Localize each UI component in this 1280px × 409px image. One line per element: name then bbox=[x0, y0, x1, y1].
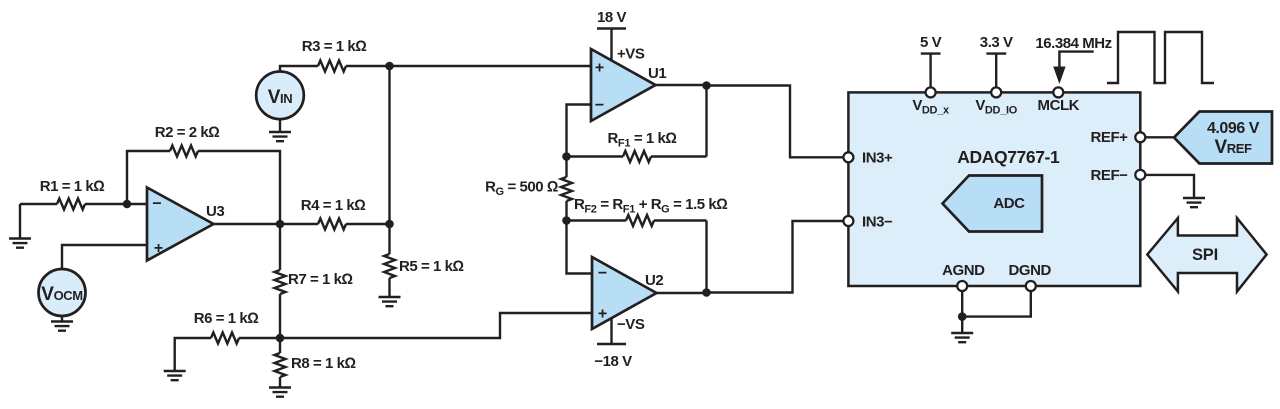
svg-text:IN3+: IN3+ bbox=[862, 150, 893, 167]
resistor R3 = 1 k&#937; bbox=[280, 38, 390, 72]
svg-text:4.096 V: 4.096 V bbox=[1207, 120, 1260, 137]
pin REF+ bbox=[1091, 129, 1146, 146]
SPI bidirectional bus arrow bbox=[1147, 218, 1266, 292]
resistor RF2 = RF1 + RG = 1.5 k&#937; (U2 feedback) bbox=[567, 196, 728, 293]
pin IN3+ bbox=[843, 150, 893, 167]
svg-text:+: + bbox=[595, 60, 604, 77]
resistor RF1 = 1 k&#937; (U1 feedback) bbox=[567, 86, 707, 163]
svg-text:REF−: REF− bbox=[1091, 167, 1129, 184]
wire U3 output bbox=[214, 223, 281, 225]
svg-text:RG = 500 Ω: RG = 500 Ω bbox=[485, 179, 558, 199]
clock waveform bbox=[1107, 32, 1214, 83]
IC U4 ADAQ7767-1 block bbox=[848, 92, 1140, 286]
svg-text:3.3 V: 3.3 V bbox=[980, 34, 1013, 51]
resistor R2 = 2 k&#937; (feedback around U3) bbox=[127, 124, 280, 224]
pin MCLK bbox=[1038, 87, 1080, 114]
svg-text:R1 = 1 kΩ: R1 = 1 kΩ bbox=[40, 178, 105, 195]
pin IN3&#8722; bbox=[843, 214, 893, 231]
wire REF&#8722; to ground bbox=[1145, 175, 1194, 197]
svg-text:+VS: +VS bbox=[617, 46, 645, 63]
source V_OCM bbox=[39, 245, 148, 316]
svg-text:MCLK: MCLK bbox=[1038, 97, 1080, 114]
wire U1 output bbox=[656, 84, 707, 86]
svg-text:R6 = 1 kΩ: R6 = 1 kΩ bbox=[194, 310, 259, 327]
svg-text:VOCM: VOCM bbox=[41, 284, 82, 305]
svg-text:AGND: AGND bbox=[942, 262, 985, 279]
resistor R7 = 1 k&#937; bbox=[275, 224, 353, 338]
svg-text:R7 = 1 kΩ: R7 = 1 kΩ bbox=[288, 271, 353, 288]
svg-text:−: − bbox=[598, 265, 607, 282]
op-amp U2 bbox=[592, 257, 663, 333]
wire U2 output to IN3&#8722; bbox=[707, 221, 844, 293]
wire AGND/DGND to ground bbox=[962, 291, 1031, 333]
svg-text:REF+: REF+ bbox=[1091, 129, 1129, 146]
resistor R6 = 1 k&#937; bbox=[175, 310, 280, 371]
svg-text:+: + bbox=[598, 306, 607, 323]
resistor R1 = 1 k&#937; bbox=[20, 178, 127, 210]
ground (R6 left) bbox=[164, 371, 186, 380]
wire U2 non-inverting input (from R6/R8 node) bbox=[280, 313, 592, 338]
ground (REF&#8722;) bbox=[1183, 198, 1205, 207]
svg-text:IN3−: IN3− bbox=[862, 214, 893, 231]
clock 16.384 MHz arrow into MCLK bbox=[1035, 35, 1111, 84]
node I (U2 output junction) bbox=[702, 288, 711, 297]
svg-text:R2 = 2 kΩ: R2 = 2 kΩ bbox=[155, 124, 220, 141]
ADC core symbol bbox=[943, 176, 1043, 232]
supply +18 V bar bbox=[597, 9, 627, 61]
wire U2 inverting input bbox=[567, 221, 593, 274]
reference source 4.096 V VREF bbox=[1174, 112, 1272, 164]
svg-text:−VS: −VS bbox=[617, 316, 645, 333]
node E (R3 right junction) bbox=[385, 62, 394, 71]
svg-text:R8 = 1 kΩ: R8 = 1 kΩ bbox=[291, 355, 356, 372]
svg-text:−: − bbox=[595, 97, 604, 114]
svg-text:U1: U1 bbox=[648, 65, 666, 82]
svg-text:RF1 = 1 kΩ: RF1 = 1 kΩ bbox=[608, 130, 677, 150]
ground (below V_OCM) bbox=[51, 316, 73, 331]
wire U2 output bbox=[657, 292, 707, 294]
source V_IN bbox=[256, 72, 304, 120]
pin VDD_x bbox=[912, 87, 950, 116]
pin VDD_IO bbox=[975, 87, 1017, 116]
svg-text:VIN: VIN bbox=[268, 87, 292, 108]
wire to U1 non-inverting input bbox=[390, 65, 592, 67]
wire U1 output to IN3+ bbox=[707, 86, 844, 158]
ground (below R8) bbox=[269, 388, 291, 397]
resistor R4 = 1 k&#937; bbox=[280, 197, 390, 230]
svg-text:VREF: VREF bbox=[1214, 137, 1252, 158]
ground (AGND/DGND) bbox=[951, 333, 973, 342]
svg-text:DGND: DGND bbox=[1009, 262, 1052, 279]
supply 5 V bbox=[920, 34, 942, 87]
ground (below V_IN) bbox=[269, 119, 291, 141]
svg-text:U3: U3 bbox=[206, 203, 224, 220]
svg-text:R3 = 1 kΩ: R3 = 1 kΩ bbox=[302, 38, 367, 55]
svg-text:R5 = 1 kΩ: R5 = 1 kΩ bbox=[399, 258, 464, 275]
svg-text:5 V: 5 V bbox=[920, 34, 942, 51]
resistor R8 = 1 k&#937; bbox=[275, 338, 356, 388]
svg-text:+: + bbox=[154, 240, 163, 257]
op-amp U1 bbox=[591, 46, 666, 122]
svg-text:16.384 MHz: 16.384 MHz bbox=[1035, 35, 1111, 52]
node B (U3 output junction) bbox=[276, 220, 285, 229]
svg-text:SPI: SPI bbox=[1192, 246, 1218, 264]
svg-text:RF2 = RF1 + RG = 1.5 kΩ: RF2 = RF1 + RG = 1.5 kΩ bbox=[574, 196, 727, 216]
ground (below R5) bbox=[379, 297, 401, 306]
svg-text:18 V: 18 V bbox=[597, 9, 627, 26]
resistor RG = 500 &#937; bbox=[485, 157, 572, 221]
pin REF&#8722; bbox=[1091, 167, 1146, 184]
op-amp U3 bbox=[147, 188, 224, 261]
pin DGND bbox=[1009, 262, 1052, 291]
supply 3.3 V bbox=[980, 34, 1013, 87]
wire U1 inverting input bbox=[567, 105, 592, 157]
resistor R5 = 1 k&#937; bbox=[384, 224, 464, 297]
svg-text:ADAQ7767-1: ADAQ7767-1 bbox=[957, 147, 1060, 167]
svg-text:R4 = 1 kΩ: R4 = 1 kΩ bbox=[301, 197, 366, 214]
node G (RG top junction) bbox=[562, 152, 571, 161]
node H (RG bottom junction) bbox=[562, 216, 571, 225]
node J (AGND/DGND junction) bbox=[958, 312, 967, 321]
svg-text:−18 V: −18 V bbox=[594, 353, 632, 370]
supply &#8722;18 V bar bbox=[594, 318, 632, 370]
svg-text:ADC: ADC bbox=[993, 195, 1025, 212]
node D (R3/R4/R5 vertical bus) bbox=[385, 66, 394, 228]
svg-text:U2: U2 bbox=[645, 272, 663, 289]
node A (U3 inverting input junction) bbox=[123, 200, 147, 209]
node F (U1 output junction) bbox=[702, 81, 711, 90]
node C (R7/R8/R6 junction) bbox=[276, 334, 285, 343]
ground (R1 left) bbox=[9, 204, 31, 248]
wire REF+ to VREF bbox=[1145, 136, 1174, 138]
svg-text:−: − bbox=[152, 196, 161, 213]
pin AGND bbox=[942, 262, 985, 291]
